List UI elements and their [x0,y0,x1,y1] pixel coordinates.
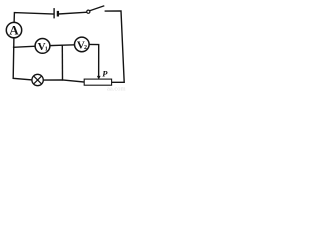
lamp L1 circle [32,74,43,85]
wire after switch to top-right corner [105,11,124,82]
wire middle row: left wire to voltmeter V1 [14,46,36,47]
wire V1 to junction to V2 [50,44,75,47]
wire lamp to bottom-left corner and up left side to ammeter [13,38,32,80]
ammeter A circle [6,22,21,37]
lamp L1 cross [34,76,42,84]
rheostat wiper arrowhead [97,76,101,80]
rheostat P body [84,79,111,85]
voltmeter V2 circle [75,37,90,52]
switch S1 lever (open) [90,6,105,11]
svg-text:1: 1 [45,47,48,53]
wire battery to switch [59,12,87,14]
svg-text:2: 2 [84,45,87,51]
wire junction drop (node between lamp and rheostat) [61,45,63,80]
svg-text:P: P [102,68,108,78]
battery cell B1 short plate [57,11,59,17]
switch S1 pivot circle [87,10,90,13]
svg-text:A: A [9,23,19,38]
wire top-left corner to battery [14,13,54,23]
battery cell B1 long plate [53,8,55,18]
wire rheostat left to junction to lamp [44,80,85,82]
voltmeter V1 circle [35,39,50,54]
wire V2 to wiper corner [89,44,99,76]
svg-text:aa.com: aa.com [107,86,126,92]
